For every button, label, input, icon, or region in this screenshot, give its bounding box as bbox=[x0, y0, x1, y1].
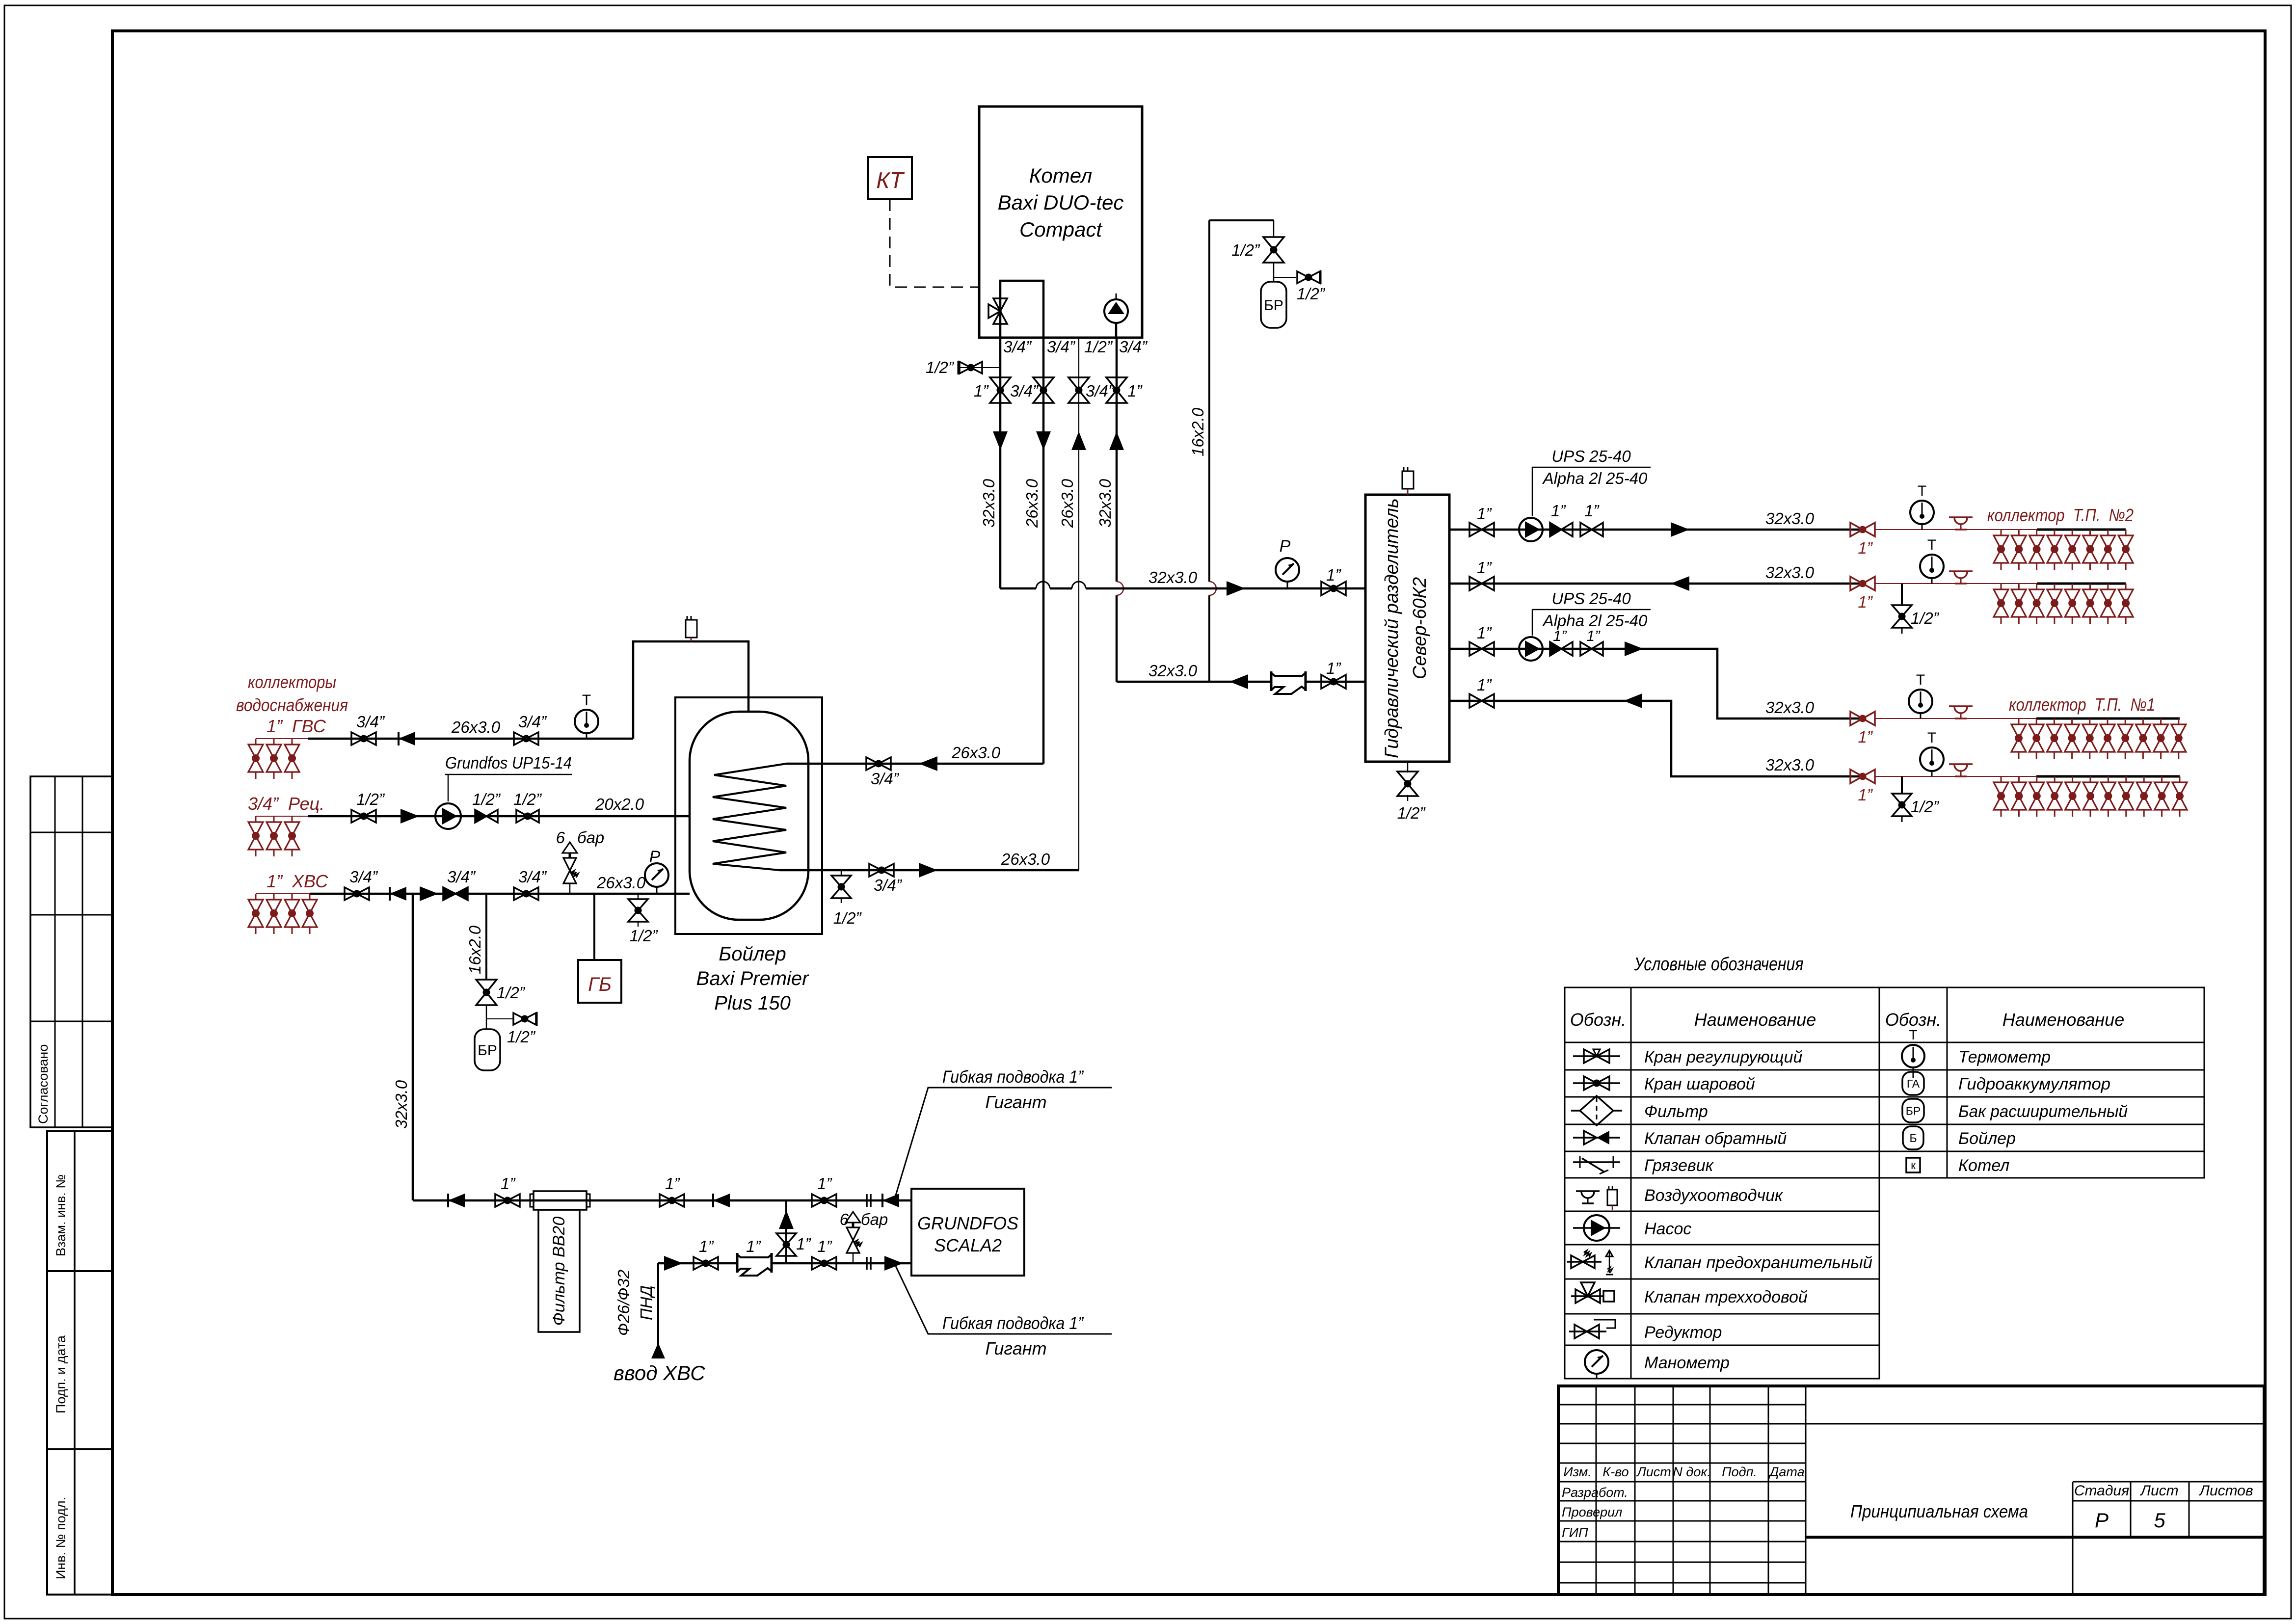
manometer on supply header bbox=[1276, 558, 1299, 582]
flow arrow left on return header bbox=[1229, 674, 1248, 689]
heating return header 32x3.0 bbox=[1117, 681, 1366, 683]
svg-text:1/2”: 1/2” bbox=[1297, 285, 1326, 303]
svg-text:3/4”: 3/4” bbox=[1010, 382, 1039, 400]
circuit 2 air vent red bbox=[1949, 570, 1973, 572]
circuit 1 isolation valve 1 inch bbox=[1469, 523, 1482, 536]
svg-text:Инв. № подл.: Инв. № подл. bbox=[53, 1497, 68, 1579]
svg-text:Насос: Насос bbox=[1644, 1220, 1691, 1238]
svg-text:1”: 1” bbox=[501, 1174, 516, 1193]
svg-text:3/4”: 3/4” bbox=[356, 713, 385, 731]
collector TP1 supply bar bbox=[2036, 718, 2180, 720]
svg-text:32x3.0: 32x3.0 bbox=[980, 479, 998, 528]
cold water top pipe bbox=[413, 1199, 911, 1202]
svg-text:1/2”: 1/2” bbox=[513, 790, 542, 808]
svg-text:3/4”: 3/4” bbox=[518, 713, 547, 731]
cold water inlet vertical bbox=[657, 1263, 659, 1347]
svg-text:Grundfos UP15-14: Grundfos UP15-14 bbox=[445, 754, 572, 772]
svg-text:32x3.0: 32x3.0 bbox=[1096, 479, 1114, 528]
svg-text:Гибкая подводка 1”: Гибкая подводка 1” bbox=[942, 1067, 1084, 1087]
svg-text:коллектор Т.П. №1: коллектор Т.П. №1 bbox=[2009, 694, 2155, 715]
GVS ball valve 3/4 bbox=[351, 732, 364, 745]
Rec ball valve 1/2 bbox=[351, 810, 364, 823]
svg-text:Т: Т bbox=[1916, 672, 1925, 688]
svg-text:UPS 25-40: UPS 25-40 bbox=[1551, 589, 1631, 608]
svg-text:1/2”: 1/2” bbox=[507, 1028, 536, 1046]
circuit 2 pipe from collector TP2 return bbox=[1449, 583, 1863, 585]
legend symbol котел К bbox=[1906, 1158, 1920, 1172]
svg-text:3/4”: 3/4” bbox=[874, 876, 903, 894]
coil return valve 3/4 bbox=[869, 864, 881, 877]
Rec line to collector bbox=[256, 816, 308, 817]
svg-text:Alpha 2l 25-40: Alpha 2l 25-40 bbox=[1542, 469, 1648, 487]
svg-text:ГИП: ГИП bbox=[1562, 1525, 1588, 1540]
legend right table grid bbox=[1879, 987, 2204, 1178]
svg-text:1/2”: 1/2” bbox=[356, 790, 385, 808]
svg-text:Дата: Дата bbox=[1768, 1464, 1804, 1479]
svg-text:26x3.0: 26x3.0 bbox=[451, 718, 501, 736]
svg-text:Baxi DUO-tec: Baxi DUO-tec bbox=[998, 191, 1124, 214]
boiler circulation pump bbox=[1115, 323, 1118, 338]
svg-text:Кран шаровой: Кран шаровой bbox=[1644, 1075, 1755, 1093]
svg-text:коллекторы: коллекторы bbox=[248, 672, 336, 692]
hydraulic separator Север-60К2 box bbox=[1365, 495, 1449, 762]
svg-text:1”: 1” bbox=[746, 1237, 761, 1255]
circuit 3 pipe to collector TP1 supply bbox=[1449, 649, 1863, 719]
left margin box Подп. и дата bbox=[47, 1271, 112, 1449]
svg-text:ГБ: ГБ bbox=[588, 974, 612, 995]
expansion branch side valve 1/2 bbox=[486, 1018, 513, 1019]
svg-text:Р: Р bbox=[649, 848, 661, 866]
coil return line 26x3.0 bbox=[779, 869, 1079, 872]
circuit 3 isolation valve 1 inch bbox=[1469, 642, 1482, 656]
collector TP2 return tap valves bbox=[2001, 584, 2002, 589]
coil supply line 26x3.0 bbox=[786, 763, 1043, 765]
bottom pipe ball valve 1 inch bbox=[694, 1257, 706, 1270]
svg-text:1/2”: 1/2” bbox=[630, 927, 659, 945]
svg-text:Котел: Котел bbox=[1958, 1156, 2009, 1175]
svg-text:Манометр: Манометр bbox=[1644, 1354, 1730, 1372]
svg-text:1” ГВС: 1” ГВС bbox=[267, 716, 326, 736]
flow arrow up riser 4 bbox=[1109, 431, 1124, 450]
svg-text:32x3.0: 32x3.0 bbox=[1765, 756, 1815, 774]
coil supply valve 3/4 bbox=[866, 757, 879, 770]
top pipe union bbox=[866, 1194, 868, 1207]
svg-text:Р: Р bbox=[1280, 537, 1291, 556]
top pipe ball valve 1 inch third bbox=[812, 1194, 824, 1207]
air vent on boiler DHW line bbox=[686, 620, 697, 638]
GVS thermometer bbox=[575, 710, 598, 733]
svg-text:ввод ХВС: ввод ХВС bbox=[614, 1361, 705, 1384]
GVS check valve bbox=[399, 732, 415, 745]
left margin box Инв. № подл. bbox=[47, 1449, 112, 1595]
HVS flow arrow right bbox=[420, 886, 438, 901]
expansion tank BR on cold water bbox=[475, 1029, 500, 1070]
circuit 2 control valve red bbox=[1850, 577, 1863, 590]
GVS pipe up and over to boiler tank bbox=[633, 641, 748, 739]
svg-text:1”: 1” bbox=[1858, 593, 1873, 611]
legend symbol фильтр bbox=[1571, 1110, 1622, 1112]
svg-text:Подп. и дата: Подп. и дата bbox=[53, 1335, 68, 1413]
svg-text:Стадия: Стадия bbox=[2074, 1483, 2129, 1499]
svg-text:Наименование: Наименование bbox=[2002, 1010, 2124, 1030]
svg-text:1”: 1” bbox=[1858, 539, 1873, 557]
svg-text:1”: 1” bbox=[974, 382, 989, 400]
control wire KT to boiler dashed bbox=[890, 199, 979, 287]
legend symbol кран регулирующий bbox=[1573, 1055, 1620, 1057]
svg-text:UPS 25-40: UPS 25-40 bbox=[1551, 447, 1631, 465]
svg-text:1/2”: 1/2” bbox=[472, 790, 501, 808]
svg-text:Взам. инв. №: Взам. инв. № bbox=[53, 1174, 68, 1256]
svg-text:Ф26/Ф32: Ф26/Ф32 bbox=[614, 1270, 633, 1336]
svg-text:Кран регулирующий: Кран регулирующий bbox=[1644, 1048, 1802, 1066]
svg-text:32x3.0: 32x3.0 bbox=[1148, 568, 1198, 586]
svg-text:6: 6 bbox=[556, 828, 565, 847]
svg-text:Согласовано: Согласовано bbox=[36, 1044, 51, 1124]
svg-text:Воздухоотводчик: Воздухоотводчик bbox=[1644, 1186, 1784, 1205]
svg-text:1/2”: 1/2” bbox=[1911, 609, 1940, 627]
circuit 2 drain branch with valve 1/2 bbox=[1901, 584, 1903, 605]
svg-text:1/2”: 1/2” bbox=[497, 984, 526, 1002]
expansion pipe 16x2.0 riser bbox=[1208, 220, 1210, 682]
circuit 4 isolation valve 1 inch bbox=[1469, 694, 1482, 708]
svg-text:Клапан трехходовой: Клапан трехходовой bbox=[1644, 1288, 1808, 1306]
svg-text:Т: Т bbox=[1909, 1027, 1917, 1042]
thermostat KT box bbox=[868, 157, 912, 199]
svg-text:1/2”: 1/2” bbox=[1911, 798, 1940, 816]
bottom pipe safety valve 6 bar bbox=[853, 1253, 854, 1263]
bypass branch with check and valve bbox=[785, 1200, 787, 1263]
circuit 3 check valve bbox=[1550, 642, 1561, 656]
expansion branch 16x2.0 from HVS line bbox=[485, 894, 487, 980]
circuit 3 pump UPS 25-40 bbox=[1519, 637, 1543, 661]
svg-text:1”: 1” bbox=[1477, 559, 1492, 577]
mud trap on return header bbox=[1272, 675, 1305, 688]
pipe riser 4 heating return 32x3.0 with hop over supply header bbox=[1116, 338, 1118, 682]
svg-text:3/4”: 3/4” bbox=[1119, 338, 1148, 356]
svg-text:16x2.0: 16x2.0 bbox=[466, 925, 484, 974]
collector TP2 supply tap valves bbox=[2001, 530, 2002, 535]
collector TP1 return tap valves bbox=[2001, 776, 2002, 782]
svg-text:32x3.0: 32x3.0 bbox=[1765, 509, 1815, 528]
ball valve 1 inch on supply header bbox=[1321, 582, 1334, 595]
svg-text:Baxi Premier: Baxi Premier bbox=[696, 968, 810, 989]
svg-text:Клапан обратный: Клапан обратный bbox=[1644, 1129, 1787, 1148]
boiler drain valve 1/2 with pipe bbox=[958, 367, 1000, 368]
circuit 4 drain branch with valve 1/2 bbox=[1901, 776, 1903, 794]
svg-text:1”: 1” bbox=[1477, 624, 1492, 642]
svg-text:Листов: Листов bbox=[2198, 1483, 2253, 1499]
circuit 3 thermometer bbox=[1909, 690, 1932, 713]
svg-text:3/4”: 3/4” bbox=[1003, 338, 1032, 356]
svg-text:N док.: N док. bbox=[1673, 1464, 1710, 1479]
HVS ball valve 3/4 second bbox=[514, 887, 526, 900]
svg-text:водоснабжения: водоснабжения bbox=[236, 695, 348, 715]
left margin table Согласовано block bbox=[30, 776, 112, 1127]
svg-text:бар: бар bbox=[577, 828, 604, 847]
svg-text:1/2”: 1/2” bbox=[1084, 338, 1113, 356]
circuit 3 thin line to collector bbox=[1875, 718, 2036, 719]
svg-text:К-во: К-во bbox=[1602, 1464, 1629, 1479]
svg-text:26x3.0: 26x3.0 bbox=[1023, 479, 1041, 528]
GVS collector tap valves bbox=[255, 739, 257, 745]
circuit 1 air vent red bbox=[1949, 516, 1973, 518]
svg-text:Проверил: Проверил bbox=[1562, 1505, 1622, 1519]
svg-text:3/4”: 3/4” bbox=[871, 770, 900, 788]
circuit 3 air vent red bbox=[1949, 705, 1973, 707]
title block frame bbox=[1558, 1386, 2264, 1595]
legend symbol термометр bbox=[1902, 1045, 1924, 1067]
svg-text:3/4”: 3/4” bbox=[1047, 338, 1076, 356]
GVS line to collector bbox=[256, 738, 308, 739]
collector TP2 supply bar bbox=[2037, 529, 2126, 531]
circuit 1 control valve red bbox=[1850, 523, 1863, 536]
HVS line to collector bbox=[256, 893, 310, 894]
svg-text:26x3.0: 26x3.0 bbox=[1001, 850, 1050, 868]
svg-text:Compact: Compact bbox=[1019, 218, 1103, 241]
ball valve 1 inch on return header bbox=[1321, 675, 1334, 689]
Rec collector tap valves bbox=[255, 816, 257, 822]
svg-text:Изм.: Изм. bbox=[1563, 1464, 1592, 1479]
svg-text:Котел: Котел bbox=[1029, 164, 1093, 187]
legend symbol клапан трехходовой bbox=[1571, 1295, 1603, 1297]
svg-text:32x3.0: 32x3.0 bbox=[392, 1080, 410, 1129]
HVS safety valve 6 bar bbox=[569, 883, 571, 894]
svg-text:1”: 1” bbox=[1551, 502, 1566, 520]
recirculation pump Grundfos UP15-14 bbox=[435, 803, 461, 829]
legend symbol редуктор bbox=[1569, 1331, 1606, 1332]
svg-text:Условные обозначения: Условные обозначения bbox=[1634, 954, 1804, 975]
svg-text:Т: Т bbox=[1927, 537, 1936, 553]
svg-text:1”: 1” bbox=[1858, 786, 1873, 804]
svg-text:26x3.0: 26x3.0 bbox=[1058, 479, 1076, 528]
top pipe check valve bbox=[448, 1194, 465, 1207]
svg-text:1/2”: 1/2” bbox=[1397, 804, 1426, 822]
expansion tank isolation valve 1/2 bbox=[1273, 220, 1275, 237]
ball valve on riser 4 bbox=[1106, 377, 1127, 390]
svg-text:Наименование: Наименование bbox=[1694, 1010, 1816, 1030]
top pipe ball valve 1 inch bbox=[495, 1194, 507, 1207]
svg-text:БР: БР bbox=[1264, 297, 1283, 314]
svg-text:Принципиальная схема: Принципиальная схема bbox=[1850, 1501, 2028, 1521]
top pipe check valve second bbox=[713, 1194, 730, 1207]
circuit 1 ball valve bbox=[1580, 523, 1592, 536]
svg-text:Гигант: Гигант bbox=[985, 1338, 1046, 1358]
svg-text:Т: Т bbox=[1918, 483, 1926, 499]
circuit 3 ball valve bbox=[1580, 642, 1592, 656]
svg-text:Фильтр: Фильтр bbox=[1644, 1102, 1708, 1121]
circuit 4 thermometer bbox=[1920, 747, 1944, 771]
legend symbol манометр bbox=[1585, 1350, 1608, 1374]
svg-text:1”: 1” bbox=[1477, 676, 1492, 694]
circuit 1 check valve bbox=[1550, 523, 1561, 536]
svg-text:Лист: Лист bbox=[2139, 1483, 2178, 1499]
svg-text:Б: Б bbox=[1909, 1132, 1917, 1145]
circuit 2 thermometer bbox=[1920, 555, 1944, 578]
circuit 1 thermometer bbox=[1910, 501, 1934, 524]
bottom pipe union bbox=[866, 1257, 868, 1270]
DHW boiler Baxi Premier Plus 150 box bbox=[675, 697, 822, 934]
svg-text:бар: бар bbox=[861, 1210, 888, 1228]
cold water bottom pipe bbox=[658, 1262, 911, 1265]
HVS collector tap valves bbox=[255, 894, 257, 900]
Rec ball valve 1/2 second bbox=[516, 810, 528, 823]
svg-text:32x3.0: 32x3.0 bbox=[1148, 662, 1198, 680]
svg-text:1”: 1” bbox=[699, 1237, 714, 1255]
svg-text:Т: Т bbox=[1927, 730, 1936, 746]
HVS drop valve 1/2 before boiler bbox=[638, 894, 639, 899]
svg-text:Т: Т bbox=[582, 692, 591, 708]
svg-text:Редуктор: Редуктор bbox=[1644, 1323, 1722, 1342]
top pipe check valve at pump bbox=[882, 1194, 899, 1207]
svg-text:Клапан предохранительный: Клапан предохранительный bbox=[1644, 1253, 1872, 1272]
circuit 1 thin line to collector bbox=[1875, 529, 2037, 530]
svg-text:Север-60К2: Север-60К2 bbox=[1410, 577, 1430, 679]
pipe riser 3 DHW coil return 26x3.0 bbox=[1078, 338, 1079, 870]
air vent on separator top bbox=[1402, 471, 1414, 489]
circuit 2 thin line to collector bbox=[1875, 583, 2037, 584]
flexible hose leader bottom bbox=[896, 1266, 1112, 1334]
boiler internal bypass pipe bbox=[1000, 281, 1043, 338]
svg-text:Термометр: Термометр bbox=[1958, 1048, 2051, 1066]
svg-text:16x2.0: 16x2.0 bbox=[1189, 407, 1207, 456]
svg-text:26x3.0: 26x3.0 bbox=[951, 744, 1001, 762]
coil drain valve 1/2 bbox=[841, 870, 842, 876]
flow arrow up riser 3 bbox=[1071, 431, 1086, 450]
legend symbol кран шаровой bbox=[1573, 1082, 1620, 1084]
inlet arrow bbox=[651, 1343, 665, 1358]
left margin box Взам. инв. № bbox=[47, 1131, 112, 1271]
svg-text:26x3.0: 26x3.0 bbox=[596, 874, 646, 892]
legend symbol грязевик bbox=[1573, 1161, 1620, 1163]
svg-text:Подп.: Подп. bbox=[1722, 1464, 1757, 1479]
circuit 4 control valve red bbox=[1850, 770, 1863, 783]
separator drain valve 1/2 bbox=[1407, 762, 1409, 772]
circuit 4 air vent red bbox=[1949, 763, 1973, 765]
circuit 1 flow arrow right bbox=[1671, 522, 1689, 537]
flexible hose leader top bbox=[895, 1088, 1112, 1198]
boiler unit Котел Baxi DUO-tec Compact box bbox=[979, 106, 1142, 338]
flow arrow down riser 1 bbox=[993, 431, 1008, 450]
HVS shutoff valve 3/4 closed bbox=[443, 887, 455, 900]
HVS ball valve 3/4 bbox=[345, 887, 357, 900]
svg-text:Лист: Лист bbox=[1636, 1464, 1671, 1479]
HVS check valve bbox=[390, 887, 406, 901]
legend left table grid bbox=[1565, 987, 1879, 1379]
svg-text:коллектор Т.П. №2: коллектор Т.П. №2 bbox=[1987, 505, 2134, 525]
svg-text:Гидравлический разделитель: Гидравлический разделитель bbox=[1382, 498, 1402, 758]
svg-text:Гигант: Гигант bbox=[985, 1092, 1046, 1112]
svg-text:1”: 1” bbox=[796, 1235, 811, 1253]
legend symbol бойлер Б bbox=[1903, 1126, 1923, 1149]
svg-text:Обозн.: Обозн. bbox=[1570, 1010, 1626, 1030]
svg-text:32x3.0: 32x3.0 bbox=[1765, 698, 1815, 717]
svg-text:1”: 1” bbox=[1858, 728, 1873, 746]
filter BB20 cartridge bbox=[534, 1191, 587, 1210]
svg-text:1/2”: 1/2” bbox=[833, 909, 862, 927]
svg-text:1”: 1” bbox=[817, 1174, 832, 1193]
svg-text:Фильтр ВВ20: Фильтр ВВ20 bbox=[550, 1217, 568, 1326]
svg-text:Гидроаккумулятор: Гидроаккумулятор bbox=[1958, 1075, 2110, 1093]
ball valve on riser 2 bbox=[1033, 377, 1054, 390]
svg-text:к: к bbox=[1911, 1159, 1916, 1171]
svg-text:1”: 1” bbox=[1584, 502, 1600, 520]
legend symbol клапан предохранительный bbox=[1567, 1261, 1602, 1263]
legend symbol воздухоотводчик bbox=[1576, 1190, 1600, 1192]
svg-text:1”: 1” bbox=[1326, 566, 1341, 584]
top pipe ball valve 1 inch second bbox=[660, 1194, 672, 1207]
circuit 1 pipe to collector TP2 supply bbox=[1449, 529, 1863, 531]
svg-text:ПНД: ПНД bbox=[637, 1285, 655, 1320]
circuit 2 flow arrow left bbox=[1671, 576, 1689, 591]
bottom pipe mud trap bbox=[738, 1256, 771, 1269]
svg-text:1”: 1” bbox=[1477, 505, 1492, 523]
coil supply flow arrow left bbox=[919, 756, 937, 771]
branch to gas boiler GB box bbox=[593, 894, 595, 960]
legend symbol бак расширительный БР bbox=[1902, 1099, 1924, 1122]
svg-text:Бойлер: Бойлер bbox=[1958, 1129, 2016, 1148]
ball valve on riser 1 bbox=[990, 377, 1011, 390]
bottom pipe flow arrow right bbox=[664, 1256, 683, 1271]
bottom pipe ball valve second bbox=[812, 1257, 824, 1270]
svg-text:Р: Р bbox=[2095, 1509, 2109, 1532]
Rec flow arrow right bbox=[400, 809, 419, 824]
expansion tank BR bbox=[1261, 282, 1286, 328]
svg-text:1”: 1” bbox=[1326, 659, 1341, 677]
svg-text:3/4” Рец.: 3/4” Рец. bbox=[248, 794, 324, 814]
flow arrow right on supply header bbox=[1227, 581, 1245, 596]
svg-text:Разработ.: Разработ. bbox=[1562, 1485, 1628, 1500]
svg-text:1/2”: 1/2” bbox=[926, 358, 955, 376]
expansion drain valve 1/2 horizontal bbox=[1274, 277, 1296, 278]
legend symbol клапан обратный bbox=[1573, 1137, 1620, 1139]
svg-text:6: 6 bbox=[840, 1210, 849, 1228]
Rec check valve half filled bbox=[475, 810, 486, 823]
HVS tee to cold water riser bbox=[412, 894, 414, 1200]
svg-text:Грязевик: Грязевик bbox=[1644, 1156, 1714, 1175]
svg-text:БР: БР bbox=[478, 1042, 497, 1059]
circuit 3 control valve red bbox=[1850, 712, 1863, 725]
DHW boiler heating coil bbox=[713, 764, 786, 870]
svg-text:3/4”: 3/4” bbox=[447, 868, 476, 886]
pipe riser 1 heating supply 32x3.0 bbox=[999, 338, 1002, 588]
svg-text:ГА: ГА bbox=[1907, 1077, 1920, 1090]
svg-text:1”: 1” bbox=[1586, 627, 1601, 644]
svg-text:SCALA2: SCALA2 bbox=[934, 1235, 1002, 1255]
collector TP1 return bar bbox=[2036, 775, 2180, 778]
svg-text:Обозн.: Обозн. bbox=[1885, 1010, 1941, 1030]
collector TP2 return bar bbox=[2037, 583, 2126, 585]
three-way valve inside boiler bbox=[993, 298, 1007, 311]
svg-text:1”: 1” bbox=[1127, 382, 1143, 400]
heating supply header 32x3.0 with hops bbox=[1000, 587, 1366, 590]
expansion branch valve 1/2 bbox=[476, 980, 497, 992]
coil return flow arrow right bbox=[919, 863, 937, 878]
pump station GRUNDFOS SCALA2 box bbox=[911, 1189, 1024, 1276]
circuit 2 isolation valve 1 inch bbox=[1469, 577, 1482, 590]
svg-text:1/2”: 1/2” bbox=[1231, 241, 1260, 259]
circuit 4 pipe from collector TP1 return bbox=[1449, 701, 1863, 776]
pipe riser 2 DHW coil supply 26x3.0 bbox=[1042, 338, 1045, 764]
legend symbol гидроаккумулятор ГА bbox=[1902, 1072, 1924, 1095]
svg-text:1” ХВС: 1” ХВС bbox=[267, 871, 328, 891]
svg-text:20x2.0: 20x2.0 bbox=[595, 795, 644, 813]
svg-text:Plus 150: Plus 150 bbox=[714, 992, 791, 1014]
DHW boiler tank bbox=[690, 712, 808, 920]
svg-text:3/4”: 3/4” bbox=[518, 868, 547, 886]
svg-text:32x3.0: 32x3.0 bbox=[1765, 563, 1815, 582]
title block horizontal lines bbox=[1558, 1404, 1806, 1406]
circuit 4 flow arrow left bbox=[1624, 693, 1642, 708]
